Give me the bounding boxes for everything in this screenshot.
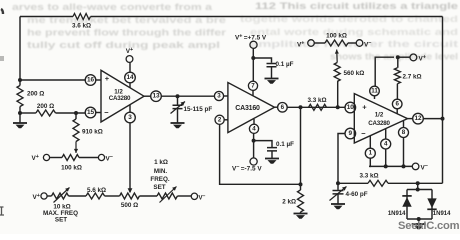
svg-text:togethe worlds deroted to chan: togethe worlds deroted to chanted (240, 14, 458, 24)
node 4-60pF junction (336, 181, 340, 185)
pin 4 U3 (381, 139, 391, 149)
diode D2 1N914 right (427, 198, 436, 209)
wire pin7 stub (252, 90, 254, 95)
svg-text:V+: V+ (32, 154, 39, 162)
svg-text:200 Ω: 200 Ω (27, 91, 44, 98)
pin 3 U2 (214, 91, 223, 100)
U1 minus sign (104, 108, 109, 117)
svg-text:910 kΩ: 910 kΩ (82, 129, 103, 136)
wire cap stem bottom (177, 109, 179, 122)
node 2.7k junction (396, 55, 400, 59)
wire diode stem (417, 183, 419, 189)
U3 label 1/2 (375, 111, 384, 118)
wire cap2 to gnd (271, 152, 273, 159)
node pin4 V- junction (384, 164, 388, 168)
U3 label CA3280 (368, 120, 390, 127)
svg-text:SET: SET (55, 217, 67, 224)
label 4-60 pF (346, 191, 368, 198)
svg-text:V−: V− (232, 165, 239, 173)
svg-text:14: 14 (126, 74, 134, 81)
wire 2k to gnd (300, 212, 302, 213)
terminal V- offset pot (98, 154, 113, 162)
label MIN. (154, 168, 168, 175)
svg-text:7: 7 (251, 82, 255, 89)
label 3.6 kΩ (72, 22, 91, 29)
node diode bottom junction (417, 217, 421, 221)
ground diodes (412, 224, 426, 229)
wire cap1 to gnd (271, 67, 273, 78)
U2 label CA3160 (235, 105, 260, 112)
potentiometer 500 ohm (120, 193, 140, 199)
pin 4 U2 (249, 124, 258, 133)
wire pin3 stub (129, 105, 131, 112)
node diode junction (416, 181, 420, 185)
node 2k junction (299, 105, 303, 109)
capacitor 4-60 pF trimmer (330, 183, 347, 200)
terminal V+ U3 (410, 54, 426, 62)
terminal V+ bottom (33, 193, 48, 201)
svg-text:3: 3 (128, 114, 132, 121)
terminal V+ 7.5V (250, 41, 257, 48)
wire 560k branch (337, 82, 339, 108)
svg-text:V−: V− (199, 193, 206, 201)
resistor 3.3 kΩ bottom (368, 180, 388, 186)
wire 200h to pin15 (56, 112, 86, 114)
U3 plus sign (362, 103, 367, 112)
terminal V+ U1 (126, 47, 133, 62)
wire pin11 up (375, 57, 394, 86)
pin 15 (85, 107, 96, 118)
pin 14 (125, 72, 136, 83)
wire 910k top (75, 113, 77, 119)
svg-text:100 kΩ: 100 kΩ (61, 164, 82, 171)
ground 4-60pF (331, 204, 345, 209)
trimmer 10 kΩ MAX FREQ (52, 188, 70, 203)
wire 2.7k top (397, 57, 399, 68)
wire pin8 stub (403, 121, 405, 128)
terminal V- freq pot (356, 40, 371, 49)
label 2 kΩ (282, 199, 296, 206)
wire pin7 to V+ rail (252, 48, 254, 81)
label V+=+7.5V (235, 34, 267, 42)
wire pin6b stub (396, 109, 398, 114)
wire pin1 down (369, 159, 370, 167)
wire diode bridge top (407, 189, 432, 191)
pin 3 U1 (125, 112, 136, 123)
svg-text:=-7.5 V: =-7.5 V (241, 166, 263, 173)
svg-text:8: 8 (402, 129, 406, 136)
resistor 200 ohm vertical (17, 86, 23, 107)
resistor 910 kΩ (73, 119, 79, 142)
pin 10 (345, 102, 356, 113)
wire U2 pin3 stub (224, 95, 228, 97)
label 10 kΩ (53, 203, 70, 210)
pin 11 (370, 86, 380, 96)
U1 label 1/2 (114, 89, 123, 96)
pin 12 (413, 113, 424, 124)
terminal V- 7.5V (250, 158, 257, 165)
op-amp U3 1/2 CA3280 triangle (354, 94, 407, 143)
ground cap1 (265, 79, 279, 84)
resistor 3.3 kΩ mid (309, 104, 327, 110)
wire pin4b stub (385, 129, 387, 139)
svg-text:1: 1 (369, 150, 373, 157)
svg-text:3: 3 (217, 93, 221, 100)
svg-text:2 kΩ: 2 kΩ (282, 199, 296, 206)
wire pin9 to fb node (338, 134, 345, 184)
resistor 5.6 kΩ (86, 193, 105, 199)
terminal V+ freq pot (297, 40, 314, 49)
svg-text:12: 12 (414, 115, 422, 122)
label 2.7 kΩ (403, 73, 422, 80)
wire 200v top (19, 80, 21, 86)
svg-text:11: 11 (371, 88, 378, 95)
label 5.6 kΩ (87, 187, 106, 194)
svg-text:560 kΩ: 560 kΩ (344, 70, 365, 77)
label 1N914 right (433, 211, 451, 217)
ground cap2 (265, 159, 279, 164)
wire to bypass cap 2 (254, 141, 272, 147)
label 3.3 kΩ bottom (359, 172, 378, 179)
wire pin12 to fb (423, 118, 442, 120)
ground left (13, 113, 27, 128)
resistor 2 kΩ (298, 190, 304, 212)
svg-text:1 kΩ: 1 kΩ (154, 159, 168, 166)
label 15-115 pF (184, 106, 213, 113)
svg-text:amplitude however the circuit: amplitude however the circuit (250, 39, 458, 49)
wire feedback right vertical (442, 17, 444, 184)
wire 4-60pF to gnd (337, 195, 339, 204)
label 1 kΩ (154, 159, 168, 166)
wire apex to pin6 (275, 106, 278, 108)
label 500 ohm (121, 202, 138, 209)
svg-text:tully cut off during peak ampl: tully cut off during peak ampl (27, 40, 220, 50)
node 560k junction (336, 105, 340, 109)
terminal V- U3 (412, 163, 428, 171)
terminal V+ offset pot (32, 154, 50, 162)
label V-=-7.5V (232, 165, 262, 173)
wire apex to pin12 (408, 118, 413, 120)
node V+ rail junction (251, 56, 255, 60)
diode D1 1N914 left (402, 196, 411, 207)
svg-text:−: − (104, 108, 109, 117)
wire diode left vertical (406, 190, 408, 220)
node lower-left junction (18, 111, 22, 115)
svg-text:4: 4 (384, 141, 388, 148)
svg-text:2.7 kΩ: 2.7 kΩ (403, 73, 422, 80)
svg-text:V+: V+ (235, 34, 242, 42)
svg-text:+: + (105, 74, 110, 83)
capacitor 0.1uF top (267, 64, 277, 67)
trimmer 1 kΩ MIN FREQ (157, 187, 177, 203)
resistor 560 kΩ (334, 63, 340, 82)
watermark SeekIC.com (398, 220, 460, 232)
svg-text:15: 15 (87, 109, 95, 116)
wire 10k to 5.6k (69, 195, 87, 197)
svg-text:500 Ω: 500 Ω (121, 202, 138, 209)
node pin8 V- junction (402, 164, 406, 168)
op-amp U1 1/2 CA3280 triangle (101, 70, 144, 122)
wire pin16 stub (96, 79, 101, 81)
wire 5.6k to 500 (105, 195, 120, 197)
svg-text:1N914: 1N914 (388, 211, 406, 217)
wire 500 to 1k (139, 195, 157, 197)
label 200 ohm vertical (27, 91, 44, 98)
pin 1 (365, 148, 375, 158)
wire feedback top-left vertical (19, 17, 21, 81)
wire vplus to 100k (50, 157, 62, 159)
resistor 2.7 kΩ (394, 68, 400, 84)
svg-text:0.1 µF: 0.1 µF (276, 61, 294, 68)
edge artifact bottom-left (0, 56, 4, 215)
wire 100k pot to V- (348, 42, 356, 44)
wire pin2 feedback loop (220, 124, 301, 184)
label MAX. FREQ (43, 210, 78, 217)
svg-text:V−: V− (421, 163, 428, 171)
svg-text:he prevent flow through the di: he prevent flow through the differ (27, 28, 227, 38)
wire to bypass cap 1 (253, 58, 271, 63)
capacitor 0.1uF bottom (267, 148, 277, 151)
wire diode right vertical (431, 190, 433, 220)
svg-text:+: + (362, 103, 367, 112)
node diode top junction (416, 188, 420, 192)
U3 minus sign (361, 129, 366, 138)
trimmer cap arrow (171, 102, 186, 114)
wire pin14 to V+ (129, 63, 131, 73)
node V- rail junction (252, 139, 256, 143)
op-amp U2 CA3160 triangle (228, 83, 275, 133)
wire pin14 stub (129, 83, 131, 88)
label FREQ. (150, 176, 169, 183)
wire 1k to V- (177, 195, 191, 197)
svg-text:=+7.5 V: =+7.5 V (244, 35, 267, 42)
pin 16 (85, 75, 96, 86)
wire pin4b down (385, 149, 387, 166)
pin 2 U2 (215, 115, 224, 124)
node pin16 junction (18, 78, 22, 82)
node feedback junction (441, 117, 445, 121)
wiper arrow 100k offset pot (74, 142, 78, 154)
wire cap stem top (177, 96, 179, 104)
svg-text:CA3160: CA3160 (235, 105, 260, 112)
svg-text:1N914: 1N914 (433, 211, 451, 217)
wire pin11 stub (374, 96, 376, 99)
svg-text:15-115 pF: 15-115 pF (184, 106, 213, 113)
svg-text:CA3280: CA3280 (109, 95, 131, 102)
wire to 100k pot (314, 42, 325, 44)
label 0.1uF bottom (276, 141, 294, 148)
resistor 100 kΩ offset pot (62, 155, 79, 161)
svg-text:V−: V− (106, 155, 113, 163)
label 910 kΩ (82, 129, 103, 136)
svg-text:9: 9 (349, 130, 353, 137)
label 0.1uF top (276, 61, 294, 68)
wire apex to pin13 (144, 95, 151, 97)
wire feedback top horizontal left (20, 16, 73, 18)
wiper arrow 100k freq pot (335, 50, 339, 63)
wire pin6 to pin10 (287, 106, 345, 108)
svg-text:16: 16 (87, 77, 95, 84)
capacitor 15-115 pF trimmer (173, 105, 183, 108)
svg-text:0.1 µF: 0.1 µF (276, 141, 294, 148)
svg-text:arves to alle-wave converte fr: arves to alle-wave converte from a (12, 2, 213, 12)
svg-text:1/2: 1/2 (375, 111, 384, 118)
node 2k bottom junction (299, 182, 303, 186)
svg-text:ental worte during schematic a: ental worte during schematic and (250, 27, 458, 37)
svg-text:6: 6 (395, 101, 399, 108)
wire pin1 stub (369, 136, 371, 148)
node 910k junction (74, 111, 78, 115)
wire pin15 stub (96, 112, 101, 114)
svg-text:FREQ.: FREQ. (150, 176, 169, 183)
wire to 200h (20, 112, 36, 114)
pin 8 (399, 128, 409, 138)
wire diode gnd stem (418, 219, 420, 224)
pin 6 U2 (278, 103, 288, 113)
svg-text:−: − (361, 129, 366, 138)
svg-text:112 This circuit utilizes a t: 112 This circuit utilizes a triangle (255, 1, 458, 11)
wire U2 pin2 stub (224, 119, 228, 121)
svg-text:100 kΩ: 100 kΩ (326, 33, 347, 40)
wire V- rail U3 (370, 165, 413, 167)
svg-text:CA3280: CA3280 (368, 120, 390, 127)
label SET left (55, 217, 67, 224)
wire pin13 to U2 pin3 (161, 95, 214, 97)
pin 9 (345, 128, 356, 139)
label 560 kΩ (344, 70, 365, 77)
wiper arrowhead 500 pot (128, 188, 133, 193)
svg-text:V+: V+ (126, 47, 133, 55)
label SET right (153, 184, 165, 191)
pin 6 U3 (392, 99, 402, 109)
wire diode bridge bottom (407, 218, 432, 220)
svg-text:SeekIC.com: SeekIC.com (398, 220, 460, 232)
wire fb bottom right (388, 182, 443, 184)
wire to pin 16 (20, 79, 85, 81)
U1 plus sign (105, 74, 110, 83)
wire fb bottom left (338, 182, 368, 184)
wire V+ to 10k (47, 195, 51, 197)
svg-text:13: 13 (152, 93, 160, 100)
svg-text:V+: V+ (33, 193, 40, 201)
svg-text:3.3 kΩ: 3.3 kΩ (359, 172, 378, 179)
wire pin4 down (253, 133, 255, 158)
resistor 3.6 kΩ (73, 14, 91, 20)
label 1N914 left (388, 211, 406, 217)
svg-text:MIN.: MIN. (154, 168, 168, 175)
ground 2k (294, 214, 308, 219)
pin 13 (151, 91, 162, 102)
label 200 ohm horizontal (37, 103, 54, 110)
svg-text:4-60 pF: 4-60 pF (346, 191, 368, 198)
svg-text:2: 2 (218, 116, 222, 123)
pin 7 U2 (248, 81, 257, 90)
svg-text:5.6 kΩ: 5.6 kΩ (87, 187, 106, 194)
wire 2k branch (300, 107, 302, 190)
wire pin3 down to 500 pot wiper (129, 123, 131, 192)
svg-text:3.6 kΩ: 3.6 kΩ (72, 22, 91, 29)
node 15-115pF junction (176, 94, 180, 98)
edge artifact top-left (1, 9, 3, 14)
ground 15-115pF (171, 123, 185, 128)
svg-text:200 Ω: 200 Ω (37, 103, 54, 110)
label 100 kΩ freq (326, 33, 347, 40)
wire pin4 stub (253, 119, 255, 124)
wire pin8 down (403, 138, 405, 167)
resistor 200 ohm horizontal (36, 110, 56, 116)
wire 2.7k bottom (396, 84, 398, 100)
svg-text:SET: SET (153, 184, 165, 191)
svg-text:6: 6 (281, 104, 285, 111)
wire 100k to vminus (79, 157, 98, 159)
wire 200v bottom (19, 107, 21, 114)
label 3.3 kΩ mid (307, 97, 326, 104)
resistor 100 kΩ freq pot (325, 40, 348, 46)
svg-text:10: 10 (347, 104, 355, 111)
terminal V- bottom (191, 193, 205, 201)
svg-text:3.3 kΩ: 3.3 kΩ (307, 97, 326, 104)
label 100 kΩ offset (61, 164, 82, 171)
wire junction to V+ (398, 56, 410, 58)
U1 label CA3280 (109, 95, 131, 102)
wire feedback top horizontal right (91, 16, 443, 18)
svg-text:4: 4 (252, 125, 256, 132)
